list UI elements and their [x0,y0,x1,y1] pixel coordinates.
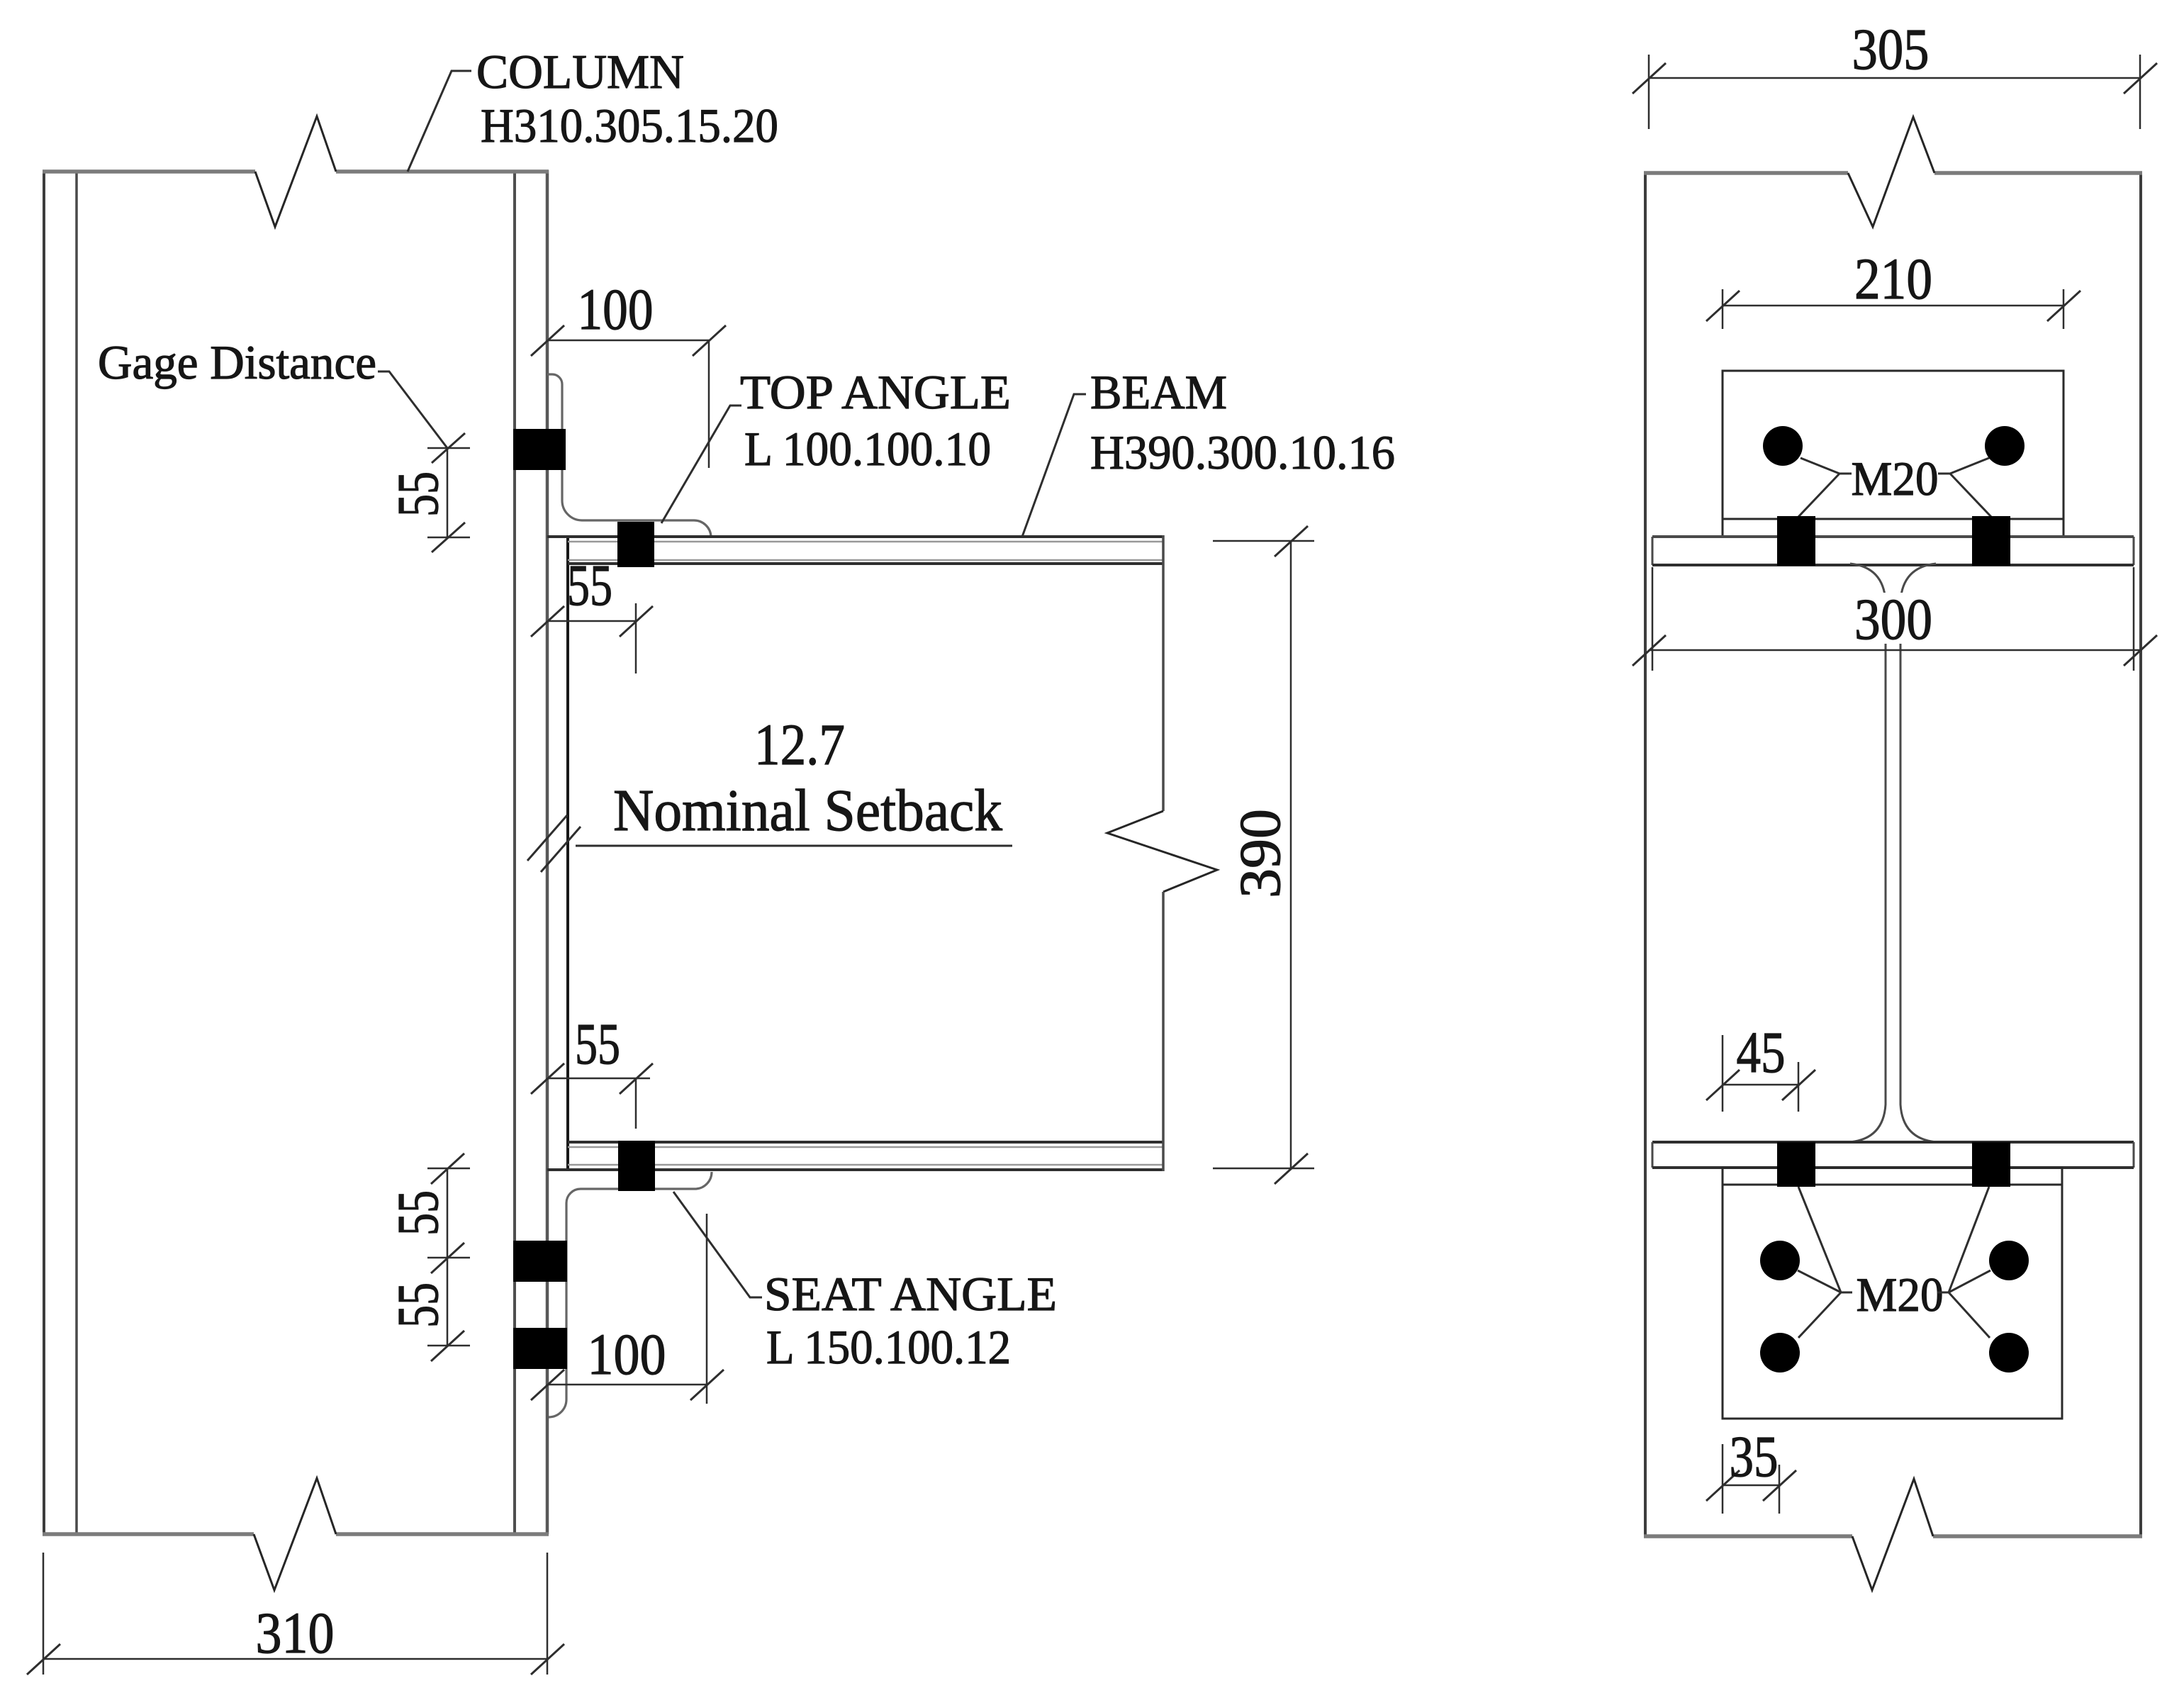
svg-text:COLUMN: COLUMN [476,45,684,99]
svg-text:45: 45 [1737,1019,1786,1085]
label SEAT ANGLE L150.100.12 [764,1267,1057,1374]
svg-text:55: 55 [575,1011,620,1076]
svg-text:Nominal Setback: Nominal Setback [613,778,1002,844]
svg-text:55: 55 [567,552,612,617]
svg-text:390: 390 [1227,809,1292,898]
label M20 (bottom) [1857,1268,1944,1321]
leader for Gage Distance [378,371,447,448]
right view column top edge [1644,171,2142,175]
right view column right edge [2139,173,2142,1536]
top angle L100.100.10 outline [547,374,711,537]
svg-text:55: 55 [385,1282,450,1328]
svg-text:12.7: 12.7 [754,712,845,777]
beam bottom flange bottom line [547,1165,1163,1170]
svg-text:100: 100 [588,1321,666,1387]
dimension 55 (flange bolt from column face, bottom) [531,1011,653,1129]
beam bottom flange top line [568,1142,1163,1147]
right view column bottom edge [1644,1534,2142,1538]
leader for SEAT ANGLE [673,1192,762,1297]
top angle face (end view) [1723,371,2063,537]
label COLUMN H310.305.15.20 [476,45,778,152]
svg-text:55: 55 [385,471,450,517]
dimension 305 (column width) [1633,16,2157,129]
svg-text:100: 100 [578,276,654,342]
lower bolt through seat angle vertical leg and column flange [513,1328,567,1369]
svg-text:SEAT ANGLE: SEAT ANGLE [764,1267,1057,1321]
dimension 35 (bolt line from seat angle edge) [1706,1424,1796,1514]
setback note 12.7 Nominal Setback [576,712,1012,846]
right view column left edge [1644,173,1647,1536]
bolt through top angle horizontal leg and beam top flange [617,522,654,567]
svg-text:55: 55 [385,1190,450,1236]
svg-text:TOP ANGLE: TOP ANGLE [740,365,1011,419]
dimension 210 (angle length) [1706,246,2081,329]
column top break symbol [255,116,336,227]
dimension 390 (beam depth) [1213,526,1314,1184]
bolts through beam top flange (end view) [1777,516,2010,566]
dimension chain 55 55 (seat bolts) [385,1153,470,1361]
seat angle column bolt heads (4 circles) [1760,1241,2029,1373]
seat angle L150.100.12 outline [549,1172,712,1417]
svg-text:BEAM: BEAM [1090,365,1227,419]
column left outer flange line [43,170,45,1534]
bolts through beam bottom flange (end view) [1777,1142,2010,1187]
beam right end with break symbol [1107,535,1217,1171]
dimension 310 (column depth) [27,1553,564,1675]
column left inner flange line [75,170,78,1534]
svg-text:Gage Distance: Gage Distance [98,335,376,389]
dimension 100 (seat angle leg) [531,1214,724,1404]
column bottom edge [43,1532,549,1536]
bolt through seat angle horizontal leg and beam bottom flange [618,1141,655,1191]
column right inner flange line [513,170,516,1534]
svg-text:L 100.100.10: L 100.100.10 [744,422,991,476]
svg-text:M20: M20 [1857,1268,1944,1321]
dimension 100 (top angle leg, top) [531,276,726,468]
right view column top break symbol [1848,117,1934,227]
seat angle face (end view) [1723,1168,2062,1419]
leaders for bottom M20 [1798,1187,1990,1338]
gage dimension 55 (vertical at column face) [385,433,470,552]
svg-text:310: 310 [256,1600,335,1665]
column top edge [43,169,549,174]
upper bolt through seat angle vertical leg and column flange [513,1241,567,1282]
right view column bottom break symbol [1852,1479,1933,1590]
svg-text:300: 300 [1854,586,1932,652]
svg-text:H310.305.15.20: H310.305.15.20 [481,99,778,152]
label M20 (top) [1852,452,1939,505]
svg-text:H390.300.10.16: H390.300.10.16 [1090,425,1395,479]
svg-text:L 150.100.12: L 150.100.12 [766,1320,1011,1374]
svg-text:305: 305 [1852,16,1930,82]
column bottom break symbol [254,1478,336,1590]
beam end line [566,535,569,1171]
svg-text:35: 35 [1730,1424,1779,1489]
top angle column bolt heads (circles) [1763,426,2025,466]
label Gage Distance [98,335,376,389]
label TOP ANGLE L100.100.10 [740,365,1011,476]
dimension 45 (bolt line from angle edge) [1706,1019,1815,1112]
svg-text:210: 210 [1854,246,1932,311]
white gap behind 300 text [1852,593,1937,644]
label BEAM H390.300.10.16 [1090,365,1395,479]
setback leader slashes [527,815,581,872]
dimension 55 (flange bolt from column face, top) [531,552,653,673]
leader for COLUMN label [408,71,471,172]
svg-text:M20: M20 [1852,452,1939,505]
bolt through top angle vertical leg and column flange [513,429,566,470]
leaders for top M20 [1798,458,1991,517]
beam bottom flange (end view) [1652,1142,2134,1168]
beam top flange (end view) [1652,537,2134,565]
beam web (end view) with fillets [1850,564,1936,1142]
leader for BEAM [1022,394,1086,537]
leader for TOP ANGLE [661,406,741,523]
column right outer flange line (column face) [546,170,549,1534]
beam top flange top line [547,537,1163,542]
dimension 300 (beam flange width) [1633,567,2157,671]
beam top flange bottom line [568,560,1163,564]
